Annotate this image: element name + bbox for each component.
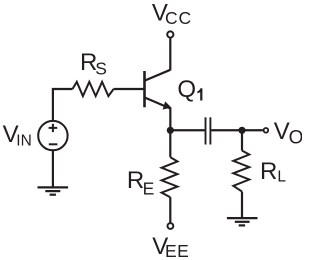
svg-text:S: S xyxy=(95,59,107,79)
svg-text:Q: Q xyxy=(177,76,196,103)
svg-text:L: L xyxy=(277,168,286,185)
svg-text:E: E xyxy=(143,179,155,199)
svg-text:V: V xyxy=(274,118,290,145)
svg-text:EE: EE xyxy=(165,241,189,260)
svg-text:R: R xyxy=(127,167,144,194)
svg-text:CC: CC xyxy=(165,8,192,28)
svg-text:IN: IN xyxy=(16,132,32,149)
svg-text:R: R xyxy=(260,158,277,185)
svg-text:O: O xyxy=(289,127,302,148)
